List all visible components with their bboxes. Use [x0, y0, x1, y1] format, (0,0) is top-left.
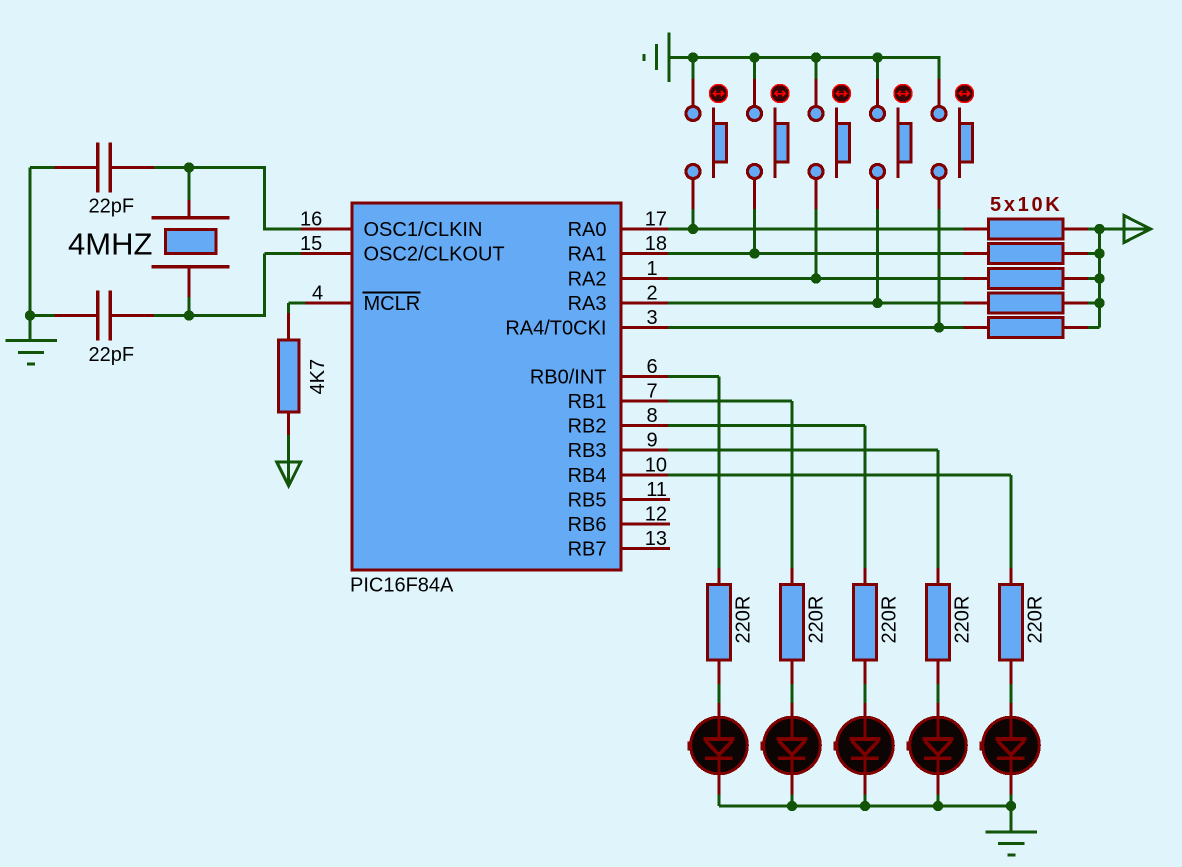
svg-text:4: 4	[312, 283, 323, 305]
svg-text:PIC16F84A: PIC16F84A	[350, 575, 454, 597]
svg-text:RA4/T0CKI: RA4/T0CKI	[505, 318, 606, 340]
svg-text:11: 11	[646, 479, 667, 501]
svg-text:RB6: RB6	[568, 514, 607, 536]
svg-text:RB3: RB3	[568, 440, 607, 462]
svg-text:220R: 220R	[879, 596, 901, 644]
svg-text:RB1: RB1	[568, 391, 607, 413]
svg-text:220R: 220R	[806, 596, 828, 644]
svg-text:13: 13	[645, 528, 667, 550]
svg-text:RB0/INT: RB0/INT	[530, 367, 607, 389]
svg-text:16: 16	[300, 209, 322, 231]
svg-text:18: 18	[645, 233, 667, 255]
svg-text:6: 6	[646, 356, 657, 378]
svg-text:7: 7	[646, 381, 657, 403]
svg-text:3: 3	[646, 307, 657, 329]
svg-text:8: 8	[646, 405, 657, 427]
svg-text:2: 2	[646, 283, 657, 305]
svg-text:1: 1	[646, 258, 657, 280]
svg-text:RA2: RA2	[568, 269, 607, 291]
svg-text:RB5: RB5	[568, 490, 607, 512]
svg-text:17: 17	[645, 209, 667, 231]
svg-text:RB2: RB2	[568, 416, 607, 438]
svg-text:5x10K: 5x10K	[990, 194, 1062, 216]
svg-text:22pF: 22pF	[89, 344, 135, 366]
svg-text:RB7: RB7	[568, 539, 607, 561]
svg-text:4MHZ: 4MHZ	[68, 227, 152, 262]
svg-text:9: 9	[646, 430, 657, 452]
svg-text:220R: 220R	[952, 596, 974, 644]
svg-text:OSC2/CLKOUT: OSC2/CLKOUT	[364, 244, 505, 266]
svg-text:RA1: RA1	[568, 244, 607, 266]
svg-text:4K7: 4K7	[307, 359, 329, 395]
svg-text:10: 10	[645, 455, 667, 477]
svg-text:RB4: RB4	[568, 465, 607, 487]
svg-text:220R: 220R	[1025, 596, 1047, 644]
svg-text:RA0: RA0	[568, 219, 607, 241]
svg-text:12: 12	[645, 504, 667, 526]
svg-text:220R: 220R	[733, 596, 755, 644]
svg-text:OSC1/CLKIN: OSC1/CLKIN	[364, 219, 483, 241]
svg-text:15: 15	[300, 233, 322, 255]
svg-text:MCLR: MCLR	[364, 293, 421, 315]
svg-text:RA3: RA3	[568, 293, 607, 315]
svg-text:22pF: 22pF	[89, 196, 135, 218]
